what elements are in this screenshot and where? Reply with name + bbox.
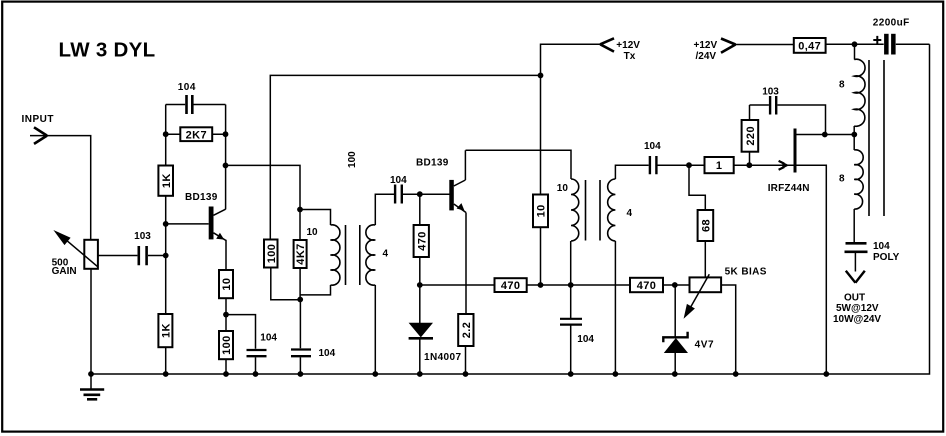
wire T1 secondary top to cap [375, 194, 394, 225]
svg-text:8: 8 [839, 80, 845, 91]
wire Q2 collector to T2 [466, 150, 572, 179]
junction ground rail at 2.2 [463, 371, 469, 377]
node dot 2K7 left [163, 131, 169, 137]
transformer T1 secondary winding [366, 225, 375, 285]
+12V Tx arrow [600, 38, 614, 51]
svg-text:104: 104 [873, 241, 890, 252]
svg-text:+12V: +12V [616, 40, 640, 51]
wire 100 to rail [225, 359, 227, 374]
svg-text:1N4007: 1N4007 [424, 352, 461, 363]
wire top rail from corner x=270 [270, 75, 540, 239]
wire T2 secondary top to cap 104 [615, 165, 648, 179]
svg-text:1: 1 [716, 160, 723, 172]
svg-text:8: 8 [839, 174, 845, 185]
resistor 68 [698, 210, 714, 241]
svg-text:+12V: +12V [694, 40, 718, 51]
wire pot wiper to cap 103 [98, 255, 166, 257]
wire 1 to gate [734, 164, 794, 166]
gate arrow [782, 162, 789, 169]
node dot gate net right [746, 162, 752, 168]
capacitor 104 emitter bypass [247, 350, 267, 356]
svg-text:Tx: Tx [624, 51, 636, 62]
resistor 470 vertical [419, 194, 421, 285]
wire emitter junction to cap 104 [226, 315, 256, 374]
mosfet source wire [797, 165, 827, 374]
resistor 220 [749, 105, 751, 165]
svg-text:BD139: BD139 [416, 157, 449, 168]
transformer T2 primary winding [571, 179, 579, 241]
svg-text:/24V: /24V [696, 51, 717, 62]
wire pot bottom to ground rail [90, 269, 92, 374]
svg-text:104: 104 [390, 175, 407, 186]
svg-text:68: 68 [700, 219, 712, 232]
junction ground rail at 104 feedback [298, 371, 304, 377]
svg-text:100: 100 [347, 151, 358, 168]
node dot supply [852, 41, 858, 47]
svg-text:4: 4 [627, 208, 633, 219]
junction ground rail at 100 [223, 371, 229, 377]
svg-text:LW 3 DYL: LW 3 DYL [59, 39, 156, 62]
wire 4K7 node to cap 104 to rail [299, 300, 301, 375]
resistor 100 emitter [219, 331, 233, 359]
svg-text:104: 104 [644, 141, 661, 152]
node dot base junction [163, 221, 169, 227]
junction ground rail at T2 104 [568, 371, 574, 377]
svg-text:INPUT: INPUT [22, 114, 55, 125]
node dot top rail [538, 73, 544, 79]
node dot collector node [223, 163, 229, 169]
svg-text:10: 10 [536, 204, 548, 217]
potentiometer 500 GAIN body [84, 240, 98, 269]
node dot bias 675 [672, 282, 678, 288]
svg-text:470: 470 [501, 280, 521, 292]
capacitor 104 gate coupling [650, 156, 657, 174]
resistor 100 feedback [264, 240, 278, 268]
wire input to potentiometer [30, 136, 91, 240]
resistor 4K7 [299, 210, 301, 300]
node dot gate net left [686, 162, 692, 168]
input arrow [34, 127, 47, 144]
5K BIAS wiper arrow [688, 274, 710, 312]
junction ground rail at 104 bypass [253, 371, 259, 377]
svg-text:100: 100 [266, 244, 278, 264]
svg-text:103: 103 [762, 86, 779, 97]
wire bias rail [420, 285, 736, 374]
capacitor 104 to ground [291, 350, 311, 357]
potentiometer wiper arrow [58, 233, 98, 267]
OUT arrow [846, 271, 865, 283]
wire cap to base Q2 [403, 193, 450, 195]
zener 4V7 [674, 285, 676, 374]
capacitor 104 T2 bypass [560, 319, 582, 325]
resistor 470 bias 2 [630, 278, 663, 292]
resistor 1K upper [158, 166, 173, 196]
node dot bias 540 [538, 282, 544, 288]
svg-text:1K: 1K [161, 173, 173, 188]
junction ground rail at 1N4007 [417, 371, 423, 377]
svg-text:10: 10 [306, 227, 318, 238]
wire 68 branch [689, 165, 705, 277]
node dot feedback top [297, 207, 303, 213]
node dot bias 570 [568, 282, 574, 288]
svg-text:103: 103 [134, 231, 151, 242]
transformer T1 core [346, 225, 360, 285]
ground rail wire [91, 44, 930, 374]
choke core [869, 60, 884, 216]
resistor 470 bias 1 [495, 278, 527, 292]
resistor 10 emitter [219, 270, 233, 298]
svg-text:2K7: 2K7 [186, 129, 207, 141]
svg-text:10W@24V: 10W@24V [833, 314, 881, 325]
wire right column x=225.5 cap to collector [225, 105, 227, 210]
svg-text:10: 10 [221, 278, 233, 291]
wire 0,47 to cap node [826, 43, 855, 45]
resistor 10 dropper [540, 75, 542, 285]
svg-text:104: 104 [319, 348, 336, 359]
svg-text:2200uF: 2200uF [873, 17, 910, 28]
svg-text:1K: 1K [161, 323, 173, 338]
node dot drain tap [851, 132, 857, 138]
svg-text:2.2: 2.2 [461, 322, 473, 339]
wire 10 to 100 [225, 298, 227, 331]
junction ground rail at potentiometer [88, 371, 94, 377]
resistor 2.2 [458, 314, 473, 346]
wire T2 primary bottom [570, 241, 572, 374]
svg-text:470: 470 [637, 280, 657, 292]
wire emitter to 10 [225, 240, 227, 270]
node dot 103 junction [163, 253, 169, 259]
junction ground rail at zener [672, 371, 678, 377]
junction ground rail at T2 secondary [613, 371, 619, 377]
ground symbol [90, 374, 92, 389]
capacitor 104 POLY [845, 243, 868, 252]
wire 100 feedback bottom [271, 268, 300, 300]
svg-text:470: 470 [416, 231, 428, 251]
resistor 1 [705, 157, 734, 173]
mosfet drain wire [797, 134, 855, 136]
junction ground rail at 1K [163, 371, 169, 377]
svg-text:OUT: OUT [844, 292, 865, 303]
capacitor 104 over 2K7 [166, 104, 226, 106]
svg-text:BD139: BD139 [185, 192, 218, 203]
svg-text:10: 10 [557, 183, 569, 194]
svg-text:104: 104 [577, 334, 594, 345]
svg-text:104: 104 [178, 82, 196, 93]
transformer T2 secondary winding [608, 179, 616, 241]
wire T1 secondary bottom to rail [374, 285, 376, 374]
wire +12V Tx rail [541, 44, 601, 75]
svg-text:4: 4 [383, 249, 389, 260]
node dot feedback bottom [297, 297, 303, 303]
diode 1N4007 [419, 285, 421, 374]
node dot bias left [417, 282, 423, 288]
+12V/24V arrow [721, 39, 736, 53]
svg-text:4K7: 4K7 [295, 243, 307, 264]
capacitor 103 input [139, 246, 147, 265]
node dot drain 825 [822, 132, 828, 138]
wire left column x=165.7 [165, 105, 167, 375]
transformer T1 primary winding [331, 225, 340, 285]
node dot 2K7 right [223, 131, 229, 137]
junction ground rail at 5K BIAS [733, 371, 739, 377]
resistor 1K lower [158, 314, 172, 347]
svg-text:100: 100 [221, 335, 233, 355]
svg-text:0,47: 0,47 [798, 40, 821, 52]
junction ground rail at IRFZ44N source [823, 371, 829, 377]
wire cap to resistor 1 [658, 164, 705, 166]
resistor 2K7 [166, 133, 226, 135]
svg-text:5K BIAS: 5K BIAS [725, 266, 767, 277]
svg-text:GAIN: GAIN [52, 266, 77, 277]
svg-text:220: 220 [745, 126, 757, 146]
wire collector node to feedback [226, 165, 331, 225]
svg-text:POLY: POLY [873, 252, 900, 263]
transformer T2 core [586, 180, 601, 241]
svg-text:IRFZ44N: IRFZ44N [768, 183, 810, 194]
svg-text:104: 104 [260, 332, 277, 343]
node dot emitter junction [223, 312, 229, 318]
resistor 0,47 [794, 38, 826, 53]
svg-text:5W@12V: 5W@12V [836, 303, 879, 314]
capacitor 104 coupling [395, 185, 402, 204]
node dot base Q2 [417, 191, 423, 197]
junction ground rail at T1 secondary [372, 371, 378, 377]
wire T2 secondary bottom to rail [614, 241, 616, 374]
capacitor 103 feedback [750, 105, 826, 135]
svg-text:4V7: 4V7 [695, 340, 715, 351]
